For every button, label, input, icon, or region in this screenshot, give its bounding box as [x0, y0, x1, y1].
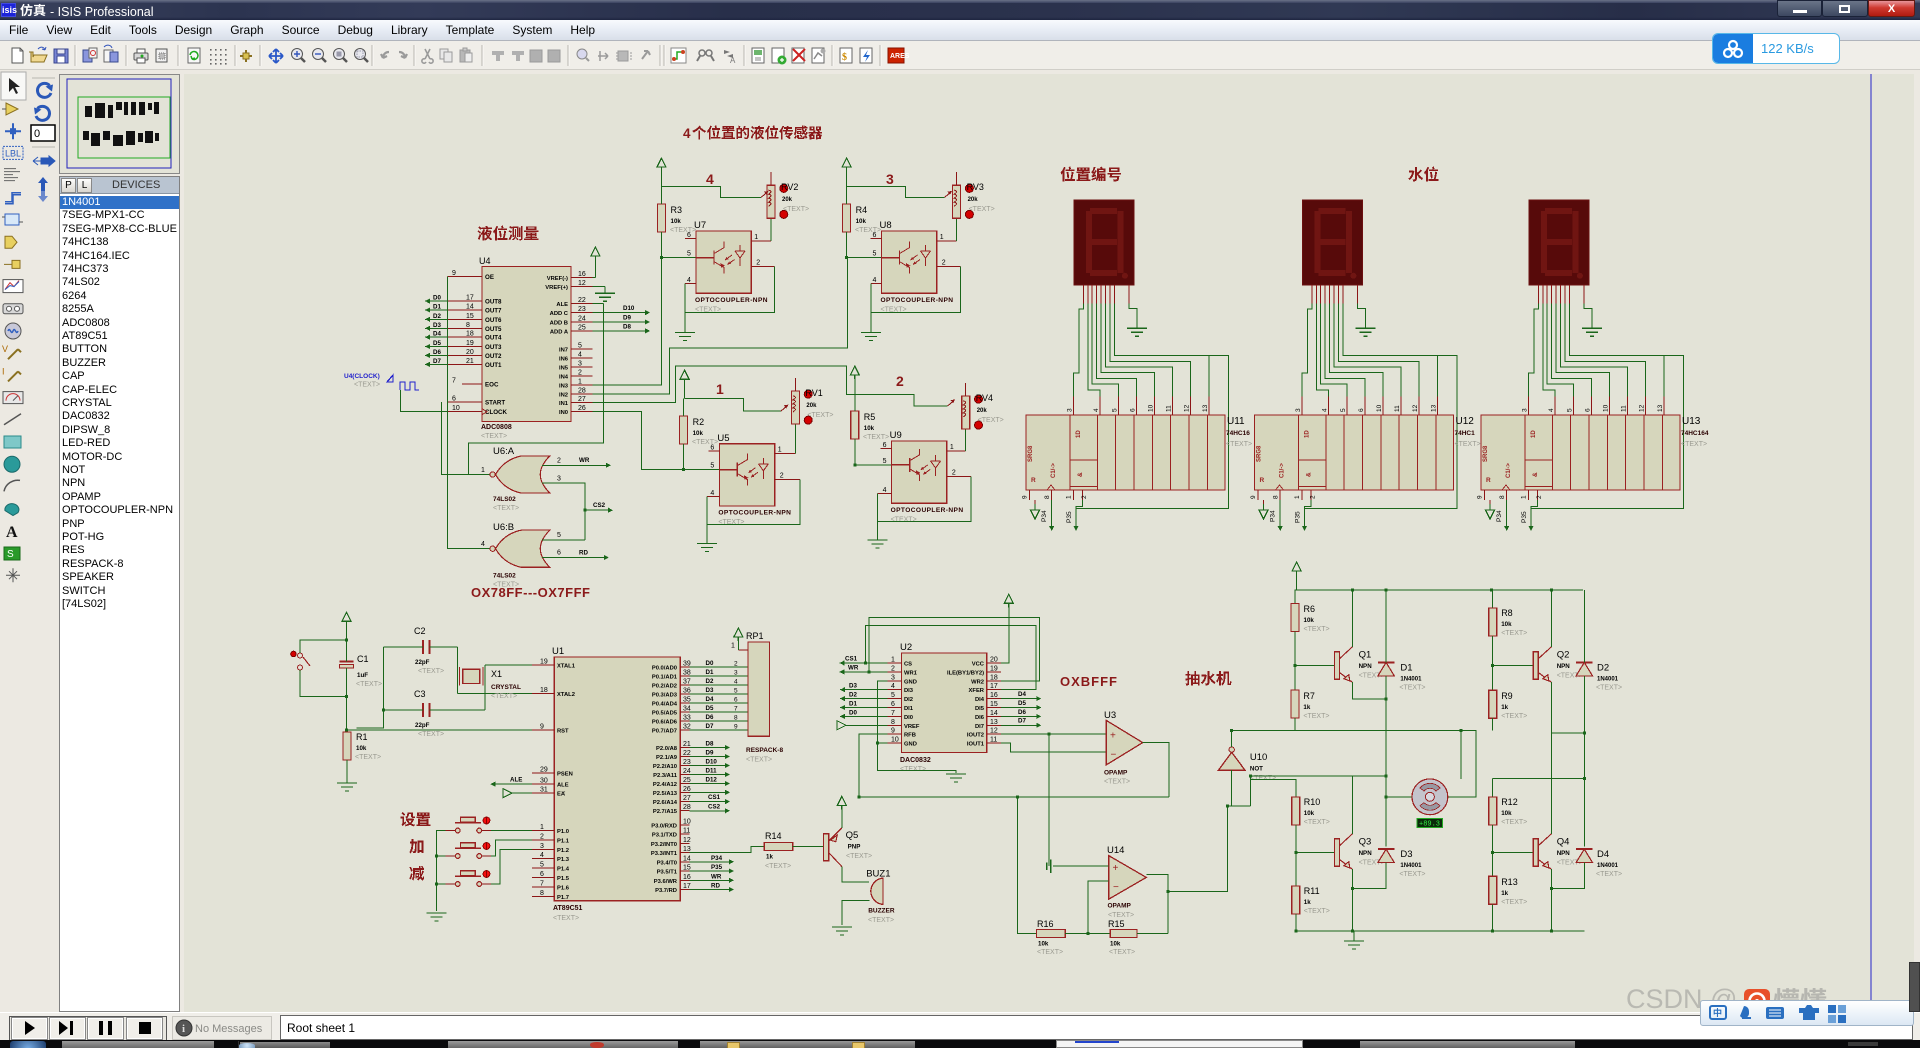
svg-text:3: 3	[1295, 408, 1302, 412]
svg-text:DI5: DI5	[975, 706, 985, 712]
svg-text:R11: R11	[1304, 886, 1320, 896]
wire H-bridge bottom rail	[1294, 930, 1584, 932]
svg-text:NOT: NOT	[1250, 766, 1263, 773]
wire R11 to bottom rail	[1295, 914, 1297, 931]
svg-text:3: 3	[1521, 408, 1528, 412]
svg-text:1k: 1k	[766, 854, 773, 861]
U2 pin CS (1)	[887, 657, 912, 668]
input bars symbol at U14 plus	[1047, 860, 1109, 874]
svg-text:27: 27	[578, 396, 586, 403]
svg-text:37: 37	[683, 679, 691, 686]
U1 pin P3.0/RXD (10)	[651, 818, 691, 829]
wire R7 to drive line A	[1294, 718, 1296, 730]
wire IOUT2 branch to U14 plus input	[1048, 734, 1050, 866]
wire D4 bottom	[1551, 863, 1584, 889]
svg-text:6: 6	[452, 396, 456, 403]
svg-text:P0.6/AD6: P0.6/AD6	[652, 720, 678, 726]
svg-text:P1.3: P1.3	[557, 857, 570, 863]
wire U3 output	[1143, 743, 1170, 797]
svg-text:CLOCK: CLOCK	[485, 409, 508, 416]
svg-text:XTAL2: XTAL2	[557, 692, 575, 698]
wire ALE	[490, 777, 532, 787]
svg-text:7: 7	[452, 377, 456, 384]
svg-text:U4(CLOCK): U4(CLOCK)	[344, 373, 380, 380]
U1 pin P1.4 (5)	[532, 862, 570, 873]
svg-text:−: −	[1113, 882, 1119, 893]
wire D3 U1 P0.3 to RP1	[690, 687, 748, 694]
svg-text:22: 22	[683, 750, 691, 757]
resistor R5 10k	[851, 394, 889, 441]
svg-text:C1/->: C1/->	[1280, 463, 1286, 478]
svg-text:<TEXT>: <TEXT>	[1226, 441, 1252, 448]
svg-text:S: S	[7, 549, 14, 560]
svg-text:DI1: DI1	[904, 706, 914, 712]
U4 pin OUT1 (21)	[447, 358, 502, 369]
svg-text:5: 5	[891, 692, 895, 699]
svg-text:ADD C: ADD C	[550, 311, 569, 317]
svg-text:D10: D10	[706, 759, 718, 766]
svg-text:<TEXT>: <TEXT>	[491, 693, 517, 700]
svg-text:CRYSTAL: CRYSTAL	[491, 684, 521, 691]
svg-text:R8: R8	[1501, 608, 1513, 618]
svg-text:D3: D3	[706, 687, 714, 694]
svg-text:CS1: CS1	[708, 794, 721, 801]
wire power rail sensor 1	[685, 399, 781, 412]
svg-text:CS2: CS2	[593, 502, 606, 509]
wire motor drive line A	[1232, 730, 1476, 797]
svg-text:P0.5/AD5: P0.5/AD5	[652, 711, 678, 717]
svg-text:D2: D2	[1597, 662, 1609, 673]
svg-text:6: 6	[557, 550, 561, 557]
svg-text:U14: U14	[1107, 845, 1124, 856]
svg-text:6: 6	[734, 697, 738, 704]
wire D5 from U4 OUT3	[425, 340, 447, 349]
svg-text:<TEXT>: <TEXT>	[1596, 684, 1622, 691]
wire CS1 from U1 P2.6	[690, 794, 730, 804]
svg-text:R: R	[1260, 477, 1265, 484]
U1 pin P1.0 (1)	[532, 824, 569, 835]
U9 pin2 loop to ground column	[878, 477, 971, 522]
U1 pin P2.4/A12 (25)	[653, 777, 691, 788]
wire feedback rail to R16	[1017, 797, 1036, 934]
svg-text:D5: D5	[433, 340, 441, 347]
svg-text:P35: P35	[1066, 511, 1073, 523]
svg-text:<TEXT>: <TEXT>	[783, 206, 809, 213]
svg-text:X1: X1	[491, 669, 502, 679]
U4 pin ADD A (25)	[550, 324, 593, 335]
svg-text:22pF: 22pF	[415, 659, 430, 666]
svg-text:<TEXT>: <TEXT>	[746, 757, 772, 764]
svg-text:1: 1	[731, 643, 735, 650]
wire C2 to crystal rail	[384, 647, 458, 694]
svg-text:R15: R15	[1108, 919, 1125, 929]
U1 pin P2.1/A9 (22)	[656, 750, 691, 761]
svg-text:<TEXT>: <TEXT>	[1681, 441, 1707, 448]
U1 pin P2.7/A15 (28)	[653, 804, 691, 815]
wire R12 to Q4 base	[1493, 825, 1534, 853]
svg-text:10: 10	[891, 737, 899, 744]
svg-text:1N4001: 1N4001	[1597, 863, 1619, 869]
svg-text:C2: C2	[414, 626, 426, 636]
svg-text:Q3: Q3	[1359, 837, 1372, 848]
svg-text:<TEXT>: <TEXT>	[1596, 871, 1622, 878]
wire Q1 collector to rail	[1351, 590, 1353, 647]
svg-text:5: 5	[883, 458, 887, 465]
wire WR from U1 P3.6/WR	[690, 873, 734, 883]
svg-text:10k: 10k	[671, 218, 682, 225]
svg-text:U7: U7	[694, 220, 706, 231]
wire P35 from U1 P3.5/T1	[690, 864, 734, 874]
svg-text:20k: 20k	[977, 408, 988, 414]
U2 pin WR2 (18)	[971, 674, 1001, 685]
U1 pin P3.3/INT1 (13)	[651, 846, 691, 857]
svg-text:2: 2	[1536, 495, 1543, 499]
wire U2 GND pins to ground	[878, 681, 966, 782]
svg-text:74HC16: 74HC16	[1226, 430, 1250, 437]
svg-text:5: 5	[557, 532, 561, 539]
U1 pin P2.2/A10 (23)	[653, 759, 691, 770]
svg-text:2: 2	[952, 470, 956, 477]
label: 位置编号	[1060, 167, 1121, 182]
svg-text:LBL: LBL	[5, 148, 21, 158]
sensor number 2	[896, 373, 904, 389]
svg-text:2: 2	[780, 473, 784, 480]
wire XTAL2	[458, 693, 532, 695]
svg-text:<TEXT>: <TEXT>	[1399, 871, 1425, 878]
svg-text:D2: D2	[706, 678, 714, 685]
svg-text:4: 4	[687, 277, 691, 284]
svg-text:8: 8	[1272, 495, 1279, 499]
svg-text:20k: 20k	[806, 403, 817, 409]
svg-text:<TEXT>: <TEXT>	[765, 863, 791, 870]
wire D4 from U4 OUT4	[425, 331, 447, 340]
svg-text:19: 19	[540, 659, 548, 666]
wire U1 P3.3 to R14	[690, 847, 765, 853]
wire R8 to Q2 base	[1493, 636, 1534, 666]
wire D5 from U2	[1001, 700, 1041, 710]
wire power rail sensor 2	[855, 394, 948, 406]
svg-text:P35: P35	[711, 864, 723, 871]
svg-text:6: 6	[710, 445, 714, 452]
svg-text:U10: U10	[1250, 752, 1267, 763]
svg-text:R14: R14	[765, 831, 782, 841]
wire H-bridge top rail	[1294, 589, 1583, 591]
transistor Q5 PNP	[824, 828, 873, 867]
svg-text:OPTOCOUPLER-NPN: OPTOCOUPLER-NPN	[695, 297, 768, 304]
7-segment display DS3	[1529, 200, 1589, 285]
svg-text:<TEXT>: <TEXT>	[969, 206, 995, 213]
U1 pin XTAL1 (19)	[532, 659, 576, 670]
wire from U1 P2.5	[690, 790, 730, 795]
svg-text:P1.1: P1.1	[557, 838, 570, 844]
svg-text:11: 11	[1621, 405, 1628, 412]
svg-text:DAC0832: DAC0832	[900, 757, 931, 764]
svg-text:23: 23	[683, 759, 691, 766]
svg-text:PNP: PNP	[848, 844, 861, 851]
svg-text:2: 2	[1081, 495, 1088, 499]
svg-text:<TEXT>: <TEXT>	[1304, 908, 1330, 915]
U1 pin P0.0/AD0 (39)	[652, 661, 691, 672]
svg-text:6: 6	[891, 701, 895, 708]
svg-text:5: 5	[710, 463, 714, 470]
svg-text:VREF: VREF	[904, 724, 920, 730]
svg-text:<TEXT>: <TEXT>	[846, 853, 872, 860]
svg-text:R6: R6	[1304, 604, 1316, 614]
wire D3 into U2	[840, 683, 887, 693]
shift register U13 74HC164 control block	[1481, 415, 1525, 490]
svg-text:24: 24	[578, 316, 586, 323]
svg-text:16: 16	[683, 874, 691, 881]
wire XTAL1	[485, 664, 532, 666]
svg-text:P35: P35	[1295, 511, 1302, 523]
svg-text:3: 3	[540, 843, 544, 850]
svg-text:OX78FF---OX7FFF: OX78FF---OX7FFF	[471, 585, 590, 600]
U1 pin P0.2/AD2 (37)	[652, 679, 691, 690]
svg-text:25: 25	[578, 324, 586, 331]
svg-text:21: 21	[466, 358, 474, 365]
resistor R8 10k	[1489, 590, 1528, 637]
resistor pack RP1 RESPACK-8	[746, 631, 783, 764]
svg-text:R10: R10	[1304, 797, 1321, 807]
IC U1 AT89C51 body	[552, 646, 680, 922]
svg-text:DI4: DI4	[975, 697, 985, 703]
svg-text:P3.7/RD: P3.7/RD	[655, 888, 677, 894]
svg-text:OPTOCOUPLER-NPN: OPTOCOUPLER-NPN	[891, 507, 964, 514]
svg-text:D12: D12	[706, 777, 718, 784]
svg-text:1: 1	[1294, 495, 1301, 499]
svg-text:NPN: NPN	[1359, 663, 1373, 670]
op-amp U3	[1104, 710, 1143, 786]
svg-text:P0.4/AD4: P0.4/AD4	[652, 702, 678, 708]
U4 pin ADD B (24)	[550, 316, 593, 327]
svg-text:WR1: WR1	[904, 670, 918, 676]
label: OX78FF---OX7FFF	[471, 585, 590, 600]
U2 pin VREF (8)	[887, 719, 920, 730]
svg-text:4: 4	[683, 126, 691, 141]
svg-text:5: 5	[578, 343, 582, 350]
svg-text:ARES: ARES	[890, 53, 910, 60]
svg-text:+89.3: +89.3	[1419, 821, 1440, 829]
power terminal sensor 4	[657, 158, 666, 186]
diode D1 1N4001	[1378, 662, 1426, 691]
svg-text:31: 31	[540, 787, 548, 794]
wire P34 from U1 P3.4/T0	[690, 855, 734, 865]
svg-text:<TEXT>: <TEXT>	[1104, 779, 1130, 786]
U4 pin OUT8 (17)	[447, 295, 502, 306]
sensor number 4	[706, 171, 714, 187]
wire power rail sensor 3	[847, 186, 945, 197]
wire reset switch bottom	[300, 670, 347, 696]
label: 设置	[401, 812, 431, 826]
wire D3 from U4 OUT5	[425, 322, 447, 331]
wire Q2 emitter to drive jog	[1551, 682, 1584, 733]
U13 main cell block	[1525, 415, 1709, 490]
potentiometer RV4 20k	[948, 383, 1004, 429]
ground for U4 VREF(+)	[593, 287, 616, 302]
svg-text:5: 5	[687, 251, 691, 258]
svg-text:RV4: RV4	[976, 393, 993, 403]
sheet border line	[1870, 74, 1872, 1012]
wire U2 RFB to feedback rail	[859, 734, 887, 797]
svg-text:OUT4: OUT4	[485, 335, 502, 342]
wire RST line	[347, 729, 532, 731]
svg-text:OUT8: OUT8	[485, 299, 502, 306]
svg-text:3: 3	[886, 171, 894, 187]
U1 pin P1.2 (3)	[532, 843, 569, 854]
svg-text:1N4001: 1N4001	[1400, 676, 1422, 682]
wire R1 to ground	[337, 760, 357, 791]
optocoupler U9	[883, 430, 964, 523]
U4 pin OUT2 (20)	[447, 349, 502, 360]
svg-text:26: 26	[578, 405, 586, 412]
U1 pin P0.3/AD3 (36)	[652, 688, 691, 699]
svg-text:22pF: 22pF	[415, 722, 430, 729]
wire D10 from U1 P2.2	[690, 759, 730, 769]
wire R4 to opto base node	[847, 232, 882, 258]
svg-text:10k: 10k	[1110, 941, 1121, 948]
svg-text:R1: R1	[356, 732, 368, 742]
svg-text:I: I	[2, 366, 5, 376]
svg-text:D7: D7	[706, 723, 714, 730]
wire R5 to opto base node	[855, 439, 892, 465]
svg-text:P2.2/A10: P2.2/A10	[653, 764, 677, 770]
svg-text:U12: U12	[1456, 416, 1475, 427]
svg-text:39: 39	[683, 661, 691, 668]
svg-text:1k: 1k	[1303, 704, 1310, 711]
U5 pin4 to ground	[697, 496, 720, 551]
svg-text:12: 12	[578, 280, 586, 287]
svg-text:DI2: DI2	[904, 697, 913, 703]
svg-text:5: 5	[540, 862, 544, 869]
svg-text:35: 35	[683, 697, 691, 704]
svg-text:NPN: NPN	[1557, 663, 1571, 670]
ground H-bridge	[1344, 931, 1364, 949]
U6:B pin5 wire	[542, 539, 585, 541]
U4 pin VREF(-) (16)	[547, 271, 593, 282]
svg-text:A: A	[730, 56, 736, 65]
svg-text:29: 29	[540, 766, 548, 773]
svg-text:IN7: IN7	[559, 348, 568, 354]
optocoupler U5	[710, 433, 791, 526]
svg-text:D6: D6	[706, 714, 714, 721]
svg-text:i: i	[182, 1023, 185, 1035]
svg-text:U5: U5	[717, 433, 729, 444]
RP1 pin 3	[734, 670, 738, 677]
svg-text:D9: D9	[706, 750, 714, 757]
U2 pin ILE(BY1/BY2) (19)	[947, 665, 1001, 676]
svg-text:OUT6: OUT6	[485, 317, 502, 324]
wire CS1 into U2	[839, 656, 887, 666]
svg-text:1k: 1k	[1304, 899, 1311, 906]
RP1 pin 2	[734, 661, 738, 668]
svg-text:ADD A: ADD A	[550, 329, 569, 335]
svg-text:NPN: NPN	[1359, 850, 1373, 857]
svg-text:10k: 10k	[1304, 617, 1315, 624]
svg-text:<TEXT>: <TEXT>	[978, 417, 1004, 424]
wire VREF terminal	[837, 721, 887, 730]
power terminal for U2 VCC	[1001, 594, 1013, 663]
DS2 segment wires to shift register	[1302, 303, 1457, 508]
svg-text:VREF(-): VREF(-)	[547, 276, 568, 282]
svg-text:8: 8	[540, 890, 544, 897]
svg-text:3: 3	[1066, 408, 1073, 412]
svg-text:6: 6	[1358, 408, 1365, 412]
U4 VREF(-) power wire	[593, 260, 596, 278]
svg-text:D4: D4	[706, 696, 714, 703]
svg-text:6: 6	[540, 871, 544, 878]
svg-text:U8: U8	[880, 220, 892, 231]
U8 pin2 loop to ground column	[871, 267, 961, 313]
U1 pin P2.6/A14 (27)	[653, 795, 691, 806]
svg-text:D7: D7	[433, 358, 441, 365]
U4 pin OUT5 (8)	[447, 322, 502, 333]
U4 pin VREF(+) (12)	[545, 280, 592, 291]
svg-text:P0.7/AD7: P0.7/AD7	[652, 729, 677, 735]
wire U4 ALE to gate node	[593, 303, 604, 305]
svg-text:2: 2	[734, 661, 738, 668]
diode D3 1N4001	[1378, 849, 1426, 878]
svg-text:1: 1	[578, 378, 582, 385]
svg-text:2: 2	[942, 260, 946, 267]
svg-text:<TEXT>: <TEXT>	[553, 915, 579, 922]
svg-text:P3.5/T1: P3.5/T1	[657, 870, 678, 876]
wire D2 column	[1583, 590, 1585, 847]
wire U10 input down	[1228, 770, 1232, 806]
svg-text:D4: D4	[433, 331, 441, 338]
svg-text:+: +	[1110, 731, 1116, 742]
U8 pin1 to pot RV3	[937, 218, 957, 241]
U4 pin IN6 (4)	[559, 352, 593, 363]
svg-text:9: 9	[1250, 495, 1257, 499]
wire D7 from U2	[1001, 718, 1041, 728]
svg-text:D11: D11	[706, 768, 718, 775]
svg-text:11: 11	[1394, 405, 1401, 412]
optocoupler U7	[687, 220, 768, 313]
DS3 segment wires to shift register	[1528, 303, 1683, 508]
U4 pin CLOCK (10)	[447, 405, 507, 416]
svg-text:D4: D4	[1018, 691, 1026, 698]
gate U6:B 74LS02	[481, 522, 561, 589]
svg-text:&: &	[1532, 472, 1539, 477]
wire EA with terminal	[503, 789, 532, 798]
svg-text:74HC1: 74HC1	[1455, 430, 1476, 437]
svg-text:R5: R5	[864, 412, 876, 422]
potentiometer RV1 20k	[781, 378, 834, 424]
wire WR into U2	[839, 664, 887, 674]
7-segment display DS1	[1074, 200, 1134, 285]
svg-text:GND: GND	[904, 742, 917, 748]
wire D7 from U4 OUT1	[425, 358, 447, 367]
wire D9 from U1 P2.1	[690, 750, 730, 760]
svg-text:P0.3/AD3: P0.3/AD3	[652, 693, 678, 699]
svg-text:38: 38	[683, 670, 691, 677]
svg-text:<TEXT>: <TEXT>	[493, 582, 519, 589]
svg-text:BUZZER: BUZZER	[868, 908, 895, 915]
svg-text:VREF(+): VREF(+)	[545, 285, 568, 291]
svg-text:74HC164: 74HC164	[1681, 430, 1709, 437]
svg-text:<TEXT>: <TEXT>	[1304, 626, 1330, 633]
ADD A wire D8	[593, 323, 651, 333]
U1 pin P3.4/T0 (14)	[657, 855, 691, 866]
svg-text:<TEXT>: <TEXT>	[868, 917, 894, 924]
U2 pin DI3 (4)	[887, 683, 913, 694]
title label: 4个位置的液位传感器	[683, 125, 822, 141]
svg-text:R: R	[1031, 477, 1036, 484]
svg-text:4: 4	[1548, 408, 1555, 412]
svg-text:D2: D2	[849, 692, 857, 699]
svg-text:<TEXT>: <TEXT>	[1304, 819, 1330, 826]
svg-text:<TEXT>: <TEXT>	[1501, 819, 1527, 826]
